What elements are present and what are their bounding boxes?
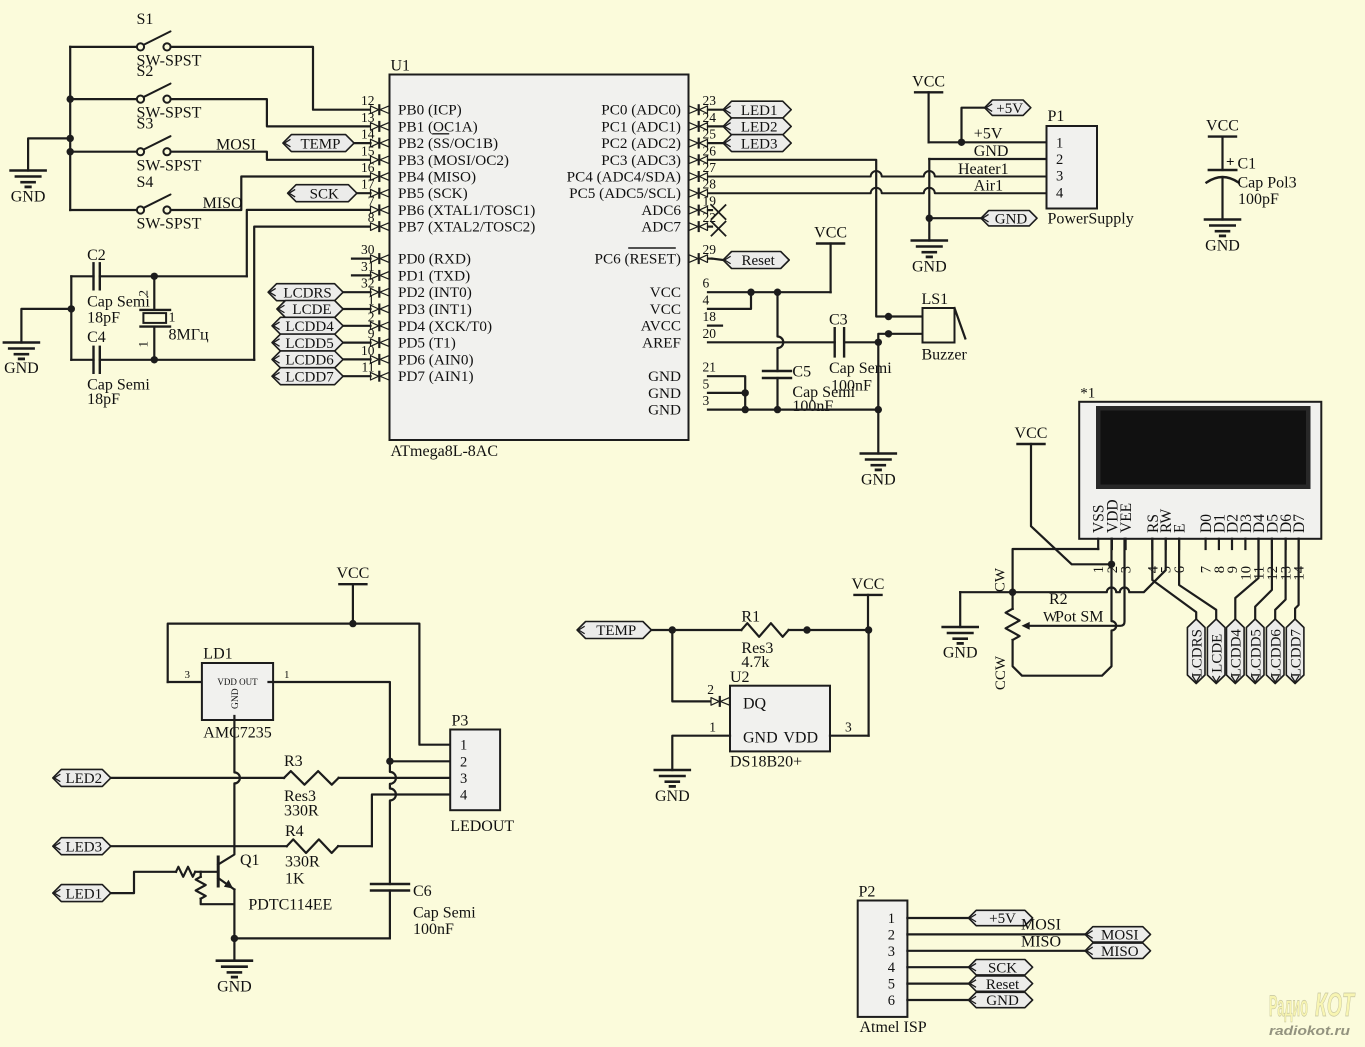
svg-text:LED1: LED1 <box>65 886 102 902</box>
svg-text:3: 3 <box>845 720 852 735</box>
svg-text:MISO: MISO <box>1101 944 1139 960</box>
svg-text:GND: GND <box>1205 238 1240 255</box>
svg-text:PC5 (ADC5/SCL): PC5 (ADC5/SCL) <box>569 185 681 202</box>
svg-text:Cap Semi: Cap Semi <box>829 360 892 377</box>
svg-text:P2: P2 <box>859 884 876 901</box>
svg-text:C1: C1 <box>1238 156 1257 173</box>
svg-text:4: 4 <box>1056 185 1064 201</box>
svg-text:4: 4 <box>703 292 710 307</box>
svg-text:Cap Semi: Cap Semi <box>87 294 150 311</box>
svg-text:GND: GND <box>648 368 681 385</box>
svg-text:MOSI: MOSI <box>216 137 256 154</box>
svg-text:LCDD4: LCDD4 <box>285 319 334 335</box>
svg-text:28: 28 <box>703 177 717 192</box>
svg-text:КОТ: КОТ <box>1315 986 1356 1023</box>
svg-text:GND: GND <box>217 979 252 996</box>
svg-text:LCDD6: LCDD6 <box>1268 629 1284 678</box>
svg-text:LED3: LED3 <box>65 839 102 855</box>
svg-text:PB4 (MISO): PB4 (MISO) <box>398 169 476 186</box>
svg-text:1: 1 <box>460 738 467 754</box>
svg-text:2: 2 <box>888 927 895 943</box>
svg-text:LCDD5: LCDD5 <box>1248 629 1264 677</box>
svg-text:PC3 (ADC3): PC3 (ADC3) <box>601 152 681 169</box>
svg-text:+5V: +5V <box>974 125 1003 142</box>
svg-text:PC2 (ADC2): PC2 (ADC2) <box>601 135 681 152</box>
svg-text:DS18B20+: DS18B20+ <box>730 754 802 771</box>
svg-text:LS1: LS1 <box>922 291 949 308</box>
svg-text:+5V: +5V <box>996 101 1023 117</box>
svg-text:Heater1: Heater1 <box>958 161 1009 178</box>
svg-text:CW: CW <box>993 567 1009 592</box>
svg-text:Cap Pol3: Cap Pol3 <box>1238 175 1297 192</box>
svg-text:PB3 (MOSI/OC2): PB3 (MOSI/OC2) <box>398 152 509 169</box>
svg-text:26: 26 <box>703 143 717 158</box>
svg-text:PC6 (RESET): PC6 (RESET) <box>595 251 682 268</box>
svg-text:GND: GND <box>912 259 947 276</box>
svg-text:S4: S4 <box>137 174 154 191</box>
svg-text:SW-SPST: SW-SPST <box>137 157 202 174</box>
svg-text:SW-SPST: SW-SPST <box>137 216 202 233</box>
svg-text:LCDD7: LCDD7 <box>285 369 334 385</box>
svg-text:GND: GND <box>231 688 241 709</box>
svg-text:U1: U1 <box>391 58 411 75</box>
svg-text:PB7 (XTAL2/TOSC2): PB7 (XTAL2/TOSC2) <box>398 219 535 236</box>
svg-text:E: E <box>1172 524 1189 533</box>
svg-text:VDD: VDD <box>783 730 818 747</box>
svg-text:4: 4 <box>888 960 896 976</box>
svg-text:LCDD4: LCDD4 <box>1229 629 1245 678</box>
svg-text:VDD OUT: VDD OUT <box>217 677 258 687</box>
svg-text:*1: *1 <box>1080 386 1095 402</box>
svg-text:PB0 (ICP): PB0 (ICP) <box>398 102 462 119</box>
svg-text:PC4 (ADC4/SDA): PC4 (ADC4/SDA) <box>567 169 681 186</box>
svg-text:LED3: LED3 <box>741 136 778 152</box>
svg-text:3: 3 <box>888 944 895 960</box>
svg-text:LD1: LD1 <box>203 646 232 663</box>
svg-text:100nF: 100nF <box>413 921 454 938</box>
svg-text:25: 25 <box>703 127 717 142</box>
svg-text:MISO: MISO <box>1021 934 1061 951</box>
svg-text:LCDD7: LCDD7 <box>1288 629 1304 678</box>
svg-text:PD4 (XCK/T0): PD4 (XCK/T0) <box>398 318 492 335</box>
svg-text:PDTC114EE: PDTC114EE <box>248 897 332 914</box>
svg-text:PD7 (AIN1): PD7 (AIN1) <box>398 368 474 385</box>
svg-text:C5: C5 <box>792 364 811 381</box>
svg-text:MOSI: MOSI <box>1021 917 1061 934</box>
svg-text:C6: C6 <box>413 883 432 900</box>
svg-text:LCDE: LCDE <box>1209 634 1225 673</box>
svg-text:21: 21 <box>703 360 717 375</box>
svg-text:PowerSupply: PowerSupply <box>1048 211 1134 228</box>
svg-text:2: 2 <box>368 309 375 324</box>
svg-text:1: 1 <box>1056 135 1063 151</box>
svg-text:1: 1 <box>169 311 176 326</box>
svg-text:11: 11 <box>362 360 375 375</box>
svg-text:1K: 1K <box>285 871 305 888</box>
svg-text:VCC: VCC <box>650 284 681 301</box>
svg-text:R2: R2 <box>1049 591 1068 608</box>
svg-text:LCDRS: LCDRS <box>1189 629 1205 677</box>
svg-text:VCC: VCC <box>814 225 847 242</box>
svg-text:S2: S2 <box>137 63 154 80</box>
svg-text:31: 31 <box>361 259 375 274</box>
svg-text:PC0 (ADC0): PC0 (ADC0) <box>601 102 681 119</box>
svg-text:PB6 (XTAL1/TOSC1): PB6 (XTAL1/TOSC1) <box>398 202 535 219</box>
svg-text:Atmel ISP: Atmel ISP <box>860 1019 927 1036</box>
svg-text:VCC: VCC <box>912 73 945 90</box>
svg-text:Air1: Air1 <box>974 178 1003 195</box>
svg-text:1: 1 <box>888 911 895 927</box>
svg-text:Buzzer: Buzzer <box>922 347 968 364</box>
svg-text:6: 6 <box>888 993 895 1009</box>
svg-text:ADC6: ADC6 <box>641 202 681 219</box>
svg-text:6: 6 <box>703 276 710 291</box>
svg-text:9: 9 <box>368 326 375 341</box>
svg-text:P3: P3 <box>452 713 469 730</box>
svg-text:29: 29 <box>703 242 717 257</box>
svg-text:330R: 330R <box>285 854 320 871</box>
svg-text:15: 15 <box>361 143 375 158</box>
svg-text:LCDE: LCDE <box>292 302 331 318</box>
svg-text:18pF: 18pF <box>87 391 120 408</box>
svg-text:TEMP: TEMP <box>300 136 340 152</box>
svg-text:Reset: Reset <box>741 253 775 269</box>
svg-text:S3: S3 <box>137 116 154 133</box>
svg-text:PB5 (SCK): PB5 (SCK) <box>398 185 468 202</box>
svg-text:R3: R3 <box>284 753 303 770</box>
svg-text:100pF: 100pF <box>1238 191 1279 208</box>
svg-text:GND: GND <box>4 360 39 377</box>
svg-text:GND: GND <box>743 730 778 747</box>
svg-text:VCC: VCC <box>336 565 369 582</box>
svg-text:Reset: Reset <box>986 977 1020 993</box>
svg-text:2: 2 <box>1056 152 1063 168</box>
svg-text:PC1 (ADC1): PC1 (ADC1) <box>601 118 681 135</box>
svg-text:CCW: CCW <box>993 655 1009 690</box>
svg-text:17: 17 <box>361 177 375 192</box>
svg-text:PD6 (AIN0): PD6 (AIN0) <box>398 351 474 368</box>
svg-text:VCC: VCC <box>852 576 885 593</box>
svg-text:C4: C4 <box>87 329 106 346</box>
svg-text:MISO: MISO <box>203 195 243 212</box>
svg-text:7: 7 <box>368 193 375 208</box>
svg-text:GND: GND <box>974 143 1009 160</box>
svg-text:2: 2 <box>460 754 467 770</box>
svg-text:32: 32 <box>361 276 375 291</box>
svg-text:1: 1 <box>709 720 716 735</box>
svg-text:LED2: LED2 <box>741 120 778 136</box>
svg-text:AREF: AREF <box>642 334 681 351</box>
svg-text:LCDD5: LCDD5 <box>285 336 333 352</box>
svg-text:SCK: SCK <box>310 186 339 202</box>
svg-text:PD3 (INT1): PD3 (INT1) <box>398 301 472 318</box>
svg-text:GND: GND <box>11 189 46 206</box>
svg-text:GND: GND <box>861 472 896 489</box>
svg-text:+5V: +5V <box>989 911 1016 927</box>
svg-text:AMC7235: AMC7235 <box>203 725 271 742</box>
svg-text:AVCC: AVCC <box>641 318 681 335</box>
svg-text:C2: C2 <box>87 247 106 264</box>
svg-text:VCC: VCC <box>1015 425 1048 442</box>
svg-text:Q1: Q1 <box>240 852 260 869</box>
svg-text:ATmega8L-8AC: ATmega8L-8AC <box>391 443 499 460</box>
svg-text:2: 2 <box>707 682 714 697</box>
svg-text:LCDD6: LCDD6 <box>285 353 334 369</box>
svg-text:13: 13 <box>361 110 375 125</box>
svg-text:1: 1 <box>368 293 375 308</box>
svg-text:P1: P1 <box>1048 108 1065 125</box>
svg-text:16: 16 <box>361 160 375 175</box>
svg-text:Радио: Радио <box>1269 990 1308 1023</box>
svg-text:GND: GND <box>986 993 1019 1009</box>
svg-text:GND: GND <box>943 645 978 662</box>
svg-text:GND: GND <box>648 385 681 402</box>
svg-text:TEMP: TEMP <box>596 623 636 639</box>
svg-text:PD1 (TXD): PD1 (TXD) <box>398 267 470 284</box>
svg-text:10: 10 <box>361 343 375 358</box>
svg-text:8МГц: 8МГц <box>169 327 209 344</box>
svg-text:VCC: VCC <box>1206 118 1239 135</box>
svg-text:330R: 330R <box>284 802 319 819</box>
svg-text:8: 8 <box>368 210 375 225</box>
svg-text:3: 3 <box>1119 566 1135 573</box>
svg-text:14: 14 <box>361 127 375 142</box>
svg-text:100nF: 100nF <box>792 398 833 415</box>
svg-text:Pot SM: Pot SM <box>1055 609 1103 626</box>
svg-text:19: 19 <box>703 194 717 209</box>
svg-text:LED2: LED2 <box>65 771 102 787</box>
svg-text:24: 24 <box>703 110 717 125</box>
svg-text:5: 5 <box>703 376 710 391</box>
svg-text:5: 5 <box>888 977 895 993</box>
svg-text:DQ: DQ <box>743 696 767 713</box>
svg-text:18: 18 <box>703 309 717 324</box>
svg-text:SCK: SCK <box>988 960 1017 976</box>
svg-text:Cap Semi: Cap Semi <box>413 905 476 922</box>
svg-text:MOSI: MOSI <box>1101 928 1139 944</box>
svg-text:VCC: VCC <box>650 301 681 318</box>
svg-text:PB1 (OC1A): PB1 (OC1A) <box>398 118 478 135</box>
svg-text:3: 3 <box>703 393 710 408</box>
svg-text:18pF: 18pF <box>87 309 120 326</box>
svg-text:D7: D7 <box>1291 514 1308 533</box>
svg-text:PD2 (INT0): PD2 (INT0) <box>398 284 472 301</box>
svg-text:100nF: 100nF <box>831 377 872 394</box>
svg-text:radiokot.ru: radiokot.ru <box>1269 1024 1350 1038</box>
svg-text:12: 12 <box>361 93 375 108</box>
svg-text:R1: R1 <box>741 608 760 625</box>
svg-text:4: 4 <box>460 788 468 804</box>
svg-text:3: 3 <box>185 669 191 681</box>
svg-text:GND: GND <box>648 402 681 419</box>
svg-text:PD5 (T1): PD5 (T1) <box>398 335 456 352</box>
svg-text:1: 1 <box>136 341 151 348</box>
svg-text:30: 30 <box>361 242 375 257</box>
svg-text:LED1: LED1 <box>741 103 778 119</box>
svg-text:20: 20 <box>703 326 717 341</box>
svg-text:U2: U2 <box>730 669 750 686</box>
svg-text:LEDOUT: LEDOUT <box>450 818 514 835</box>
svg-text:GND: GND <box>655 788 690 805</box>
svg-text:C3: C3 <box>829 312 848 329</box>
svg-text:3: 3 <box>1056 169 1063 185</box>
svg-text:27: 27 <box>703 160 717 175</box>
svg-text:+: + <box>1226 155 1235 171</box>
svg-text:3: 3 <box>460 771 467 787</box>
svg-text:LCDRS: LCDRS <box>283 285 331 301</box>
svg-text:S1: S1 <box>137 11 154 28</box>
svg-text:GND: GND <box>995 211 1028 227</box>
svg-text:ADC7: ADC7 <box>641 219 681 236</box>
svg-text:PB2 (SS/OC1B): PB2 (SS/OC1B) <box>398 135 498 152</box>
svg-text:PD0 (RXD): PD0 (RXD) <box>398 251 471 268</box>
svg-text:R4: R4 <box>285 823 304 840</box>
svg-text:1: 1 <box>284 669 290 681</box>
svg-text:23: 23 <box>703 93 717 108</box>
svg-text:VEE: VEE <box>1118 503 1135 533</box>
